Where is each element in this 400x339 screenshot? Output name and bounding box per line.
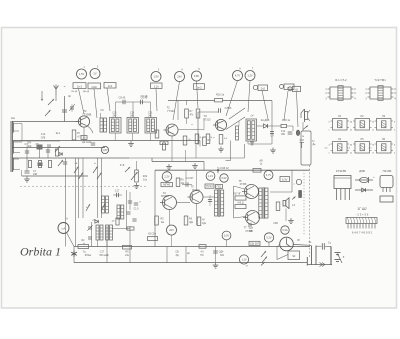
pin label box 10 <box>293 86 301 91</box>
wire <box>12 140 60 142</box>
resistor R33 <box>78 245 89 249</box>
svg-text:Л4: Л4 <box>338 137 342 141</box>
wire switch col 2 <box>75 158 77 247</box>
junction <box>217 169 219 174</box>
wire leader <box>156 89 157 112</box>
capacitor C16 <box>185 182 187 187</box>
svg-text:0,3А: 0,3А <box>282 228 288 232</box>
resistor R30 box <box>235 196 246 200</box>
coil L1a <box>12 123 13 126</box>
svg-text:1,8V: 1,8V <box>102 148 108 152</box>
wire <box>178 129 204 131</box>
wire <box>325 245 331 247</box>
capacitor C19 pol <box>134 202 138 204</box>
wire <box>195 144 197 158</box>
capacitor C27 <box>248 223 250 227</box>
coil L8 primary <box>236 126 239 140</box>
svg-text:2А Д9В: 2А Д9В <box>261 119 270 122</box>
ground pot <box>136 183 138 186</box>
test point circle 4 <box>175 72 185 82</box>
svg-text:НО: НО <box>200 255 204 257</box>
wire <box>177 202 191 204</box>
ground T2 <box>168 164 170 167</box>
wire leader <box>297 92 299 127</box>
svg-text:047: 047 <box>249 230 254 233</box>
svg-text:ЦЭ С242: ЦЭ С242 <box>82 142 92 144</box>
capacitor top mid <box>250 141 254 143</box>
resistor R35 <box>199 245 206 249</box>
transistor T1 <box>78 116 89 127</box>
IF filter section L4 <box>110 118 122 134</box>
diode V3 <box>59 152 62 155</box>
svg-text:2,2V: 2,2V <box>164 175 170 179</box>
capacitor C7 <box>26 158 28 171</box>
svg-text:Л1: Л1 <box>338 114 342 118</box>
capacitor C6 <box>63 161 67 163</box>
resistor R8b <box>196 109 200 118</box>
svg-text:4,7V: 4,7V <box>235 74 241 78</box>
test point circle 1 <box>77 69 87 79</box>
wire drop <box>106 226 108 263</box>
svg-text:6,3V: 6,3V <box>282 178 288 182</box>
wire base link <box>233 186 235 218</box>
resistor R3b <box>48 161 51 168</box>
wire drop <box>129 226 131 263</box>
pinout can B <box>370 87 391 99</box>
svg-text:С8 43: С8 43 <box>119 97 126 100</box>
svg-text:КТ315Б: КТ315Б <box>336 169 346 173</box>
resistor R28 <box>253 169 261 173</box>
coil taps <box>14 123 22 125</box>
switch arrows mid <box>55 146 60 152</box>
capacitor C9 link <box>116 101 151 103</box>
wire leader <box>284 91 288 120</box>
svg-text:1,3V: 1,3V <box>247 74 253 78</box>
resistor R2 <box>38 161 41 168</box>
meter circle mA <box>58 223 69 234</box>
wire switch col 4 <box>82 158 84 218</box>
small circle spk node <box>296 179 301 184</box>
capacitor C3 <box>25 150 29 152</box>
capacitor C4 <box>37 145 43 150</box>
capacitor C8b <box>91 142 95 144</box>
wire bottom rail 1 <box>74 246 310 248</box>
svg-text:С10: С10 <box>112 113 117 115</box>
pin label box 1 <box>73 83 86 89</box>
wire leader <box>262 91 268 120</box>
wire <box>115 102 117 118</box>
svg-text:mA: mA <box>62 227 66 231</box>
switch contact 4 <box>97 173 102 180</box>
test circle 18V <box>101 146 108 153</box>
wire spk feed <box>270 191 292 193</box>
test circle 0.3A <box>281 226 289 234</box>
switch S2 lever <box>277 255 288 260</box>
svg-text:- 2 3 + 5 6: - 2 3 + 5 6 <box>356 213 369 217</box>
package P213 a <box>380 176 393 188</box>
spk arrow <box>292 197 296 200</box>
switch S3 contacts <box>261 251 266 257</box>
wire bus B <box>155 169 310 171</box>
wire <box>316 245 322 247</box>
wire <box>203 196 215 198</box>
coil L7 osc <box>106 225 109 240</box>
test circle -0.9V <box>220 174 228 182</box>
svg-text:Orbita 1: Orbita 1 <box>20 245 61 259</box>
resistor R7 <box>155 130 159 138</box>
wire <box>97 240 99 247</box>
ground T3 <box>194 163 196 166</box>
capacitor C1 <box>64 96 66 122</box>
wire det bottom <box>247 141 249 144</box>
wire bus A <box>152 161 204 163</box>
resistor R8c <box>148 237 158 241</box>
svg-text:ГТ308В: ГТ308В <box>83 114 92 117</box>
svg-text:2п2: 2п2 <box>261 87 266 91</box>
svg-text:3г-Б: 3г-Б <box>120 164 125 167</box>
wire <box>12 147 105 149</box>
wire loop T3 <box>198 111 218 113</box>
jack plug dark <box>299 191 302 198</box>
svg-text:П21: П21 <box>217 185 222 189</box>
wire <box>238 121 240 126</box>
wire bottom power <box>307 264 332 266</box>
pin label box 3 <box>104 83 116 89</box>
jack plug <box>296 130 299 135</box>
power end bar <box>306 257 308 266</box>
svg-text:1к: 1к <box>83 243 85 245</box>
wire dashed chassis <box>303 170 305 236</box>
coil L6 osc <box>96 225 99 240</box>
svg-text:П213Б: П213Б <box>383 169 392 173</box>
svg-text:Д9В: Д9В <box>359 169 365 173</box>
svg-text:К-В Д: К-В Д <box>238 203 244 205</box>
wire right drop <box>309 165 311 257</box>
ground bot <box>215 263 217 266</box>
svg-text:4,7V: 4,7V <box>266 173 272 177</box>
test circle 1.1V <box>206 172 215 181</box>
svg-text:2kV: 2kV <box>177 75 182 79</box>
ground C7 <box>26 177 28 180</box>
speaker BA1 <box>283 201 286 206</box>
svg-text:S2: S2 <box>292 254 296 258</box>
trimmer C21 <box>88 226 92 228</box>
wire diag T3a <box>226 117 245 129</box>
wire bus IF <box>12 140 200 142</box>
switch S1.2 <box>45 110 51 116</box>
svg-text:КТ315: КТ315 <box>204 119 212 122</box>
svg-text:24V: 24V <box>169 228 174 232</box>
wire AGC <box>168 100 215 102</box>
resistor R10 <box>195 134 199 144</box>
svg-text:Л6: Л6 <box>382 137 386 141</box>
capacitor C20b <box>208 199 212 201</box>
svg-text:2п-2: 2п-2 <box>77 85 83 89</box>
svg-text:0,2V: 0,2V <box>266 236 272 240</box>
pin label box T4 <box>161 183 173 187</box>
test circle 4.7V <box>264 171 273 180</box>
wire AF left edge <box>154 170 156 246</box>
transistor T5 <box>190 191 203 204</box>
resistor box top mid <box>160 141 168 144</box>
resistor R9 <box>203 137 207 146</box>
svg-text:*з СЗЗ 12: *з СЗЗ 12 <box>217 166 229 170</box>
wire af feed <box>129 157 245 159</box>
svg-text:С1.9: С1.9 <box>134 209 140 211</box>
capacitor C13 <box>218 108 220 113</box>
wire bottom rail 2 <box>74 262 307 264</box>
coil L5 osc <box>102 196 105 213</box>
svg-text:СЛ8: СЛ8 <box>41 137 46 140</box>
antenna WA2 <box>55 89 57 95</box>
resistor R29 <box>276 202 280 211</box>
coil L8 osc <box>117 205 120 219</box>
terminal star X3 <box>71 251 77 258</box>
svg-text:2,2п: 2,2п <box>154 85 160 89</box>
wire <box>83 128 85 141</box>
svg-text:1,5V: 1,5V <box>79 72 85 76</box>
connector X1 <box>311 246 313 266</box>
jack arrow <box>303 126 308 130</box>
test point circle 3 <box>151 72 161 82</box>
svg-text:2п2: 2п2 <box>108 84 113 88</box>
switch contact vol <box>125 167 130 172</box>
diode V1 <box>263 124 267 128</box>
wire <box>55 95 57 101</box>
svg-text:Л5: Л5 <box>360 137 364 141</box>
pin label box 9 <box>284 84 294 90</box>
svg-text:0,9V: 0,9V <box>221 176 227 180</box>
pinout can A <box>330 87 351 99</box>
capacitor C17 <box>116 193 118 198</box>
svg-text:МП40: МП40 <box>163 183 170 187</box>
resistor R16 <box>215 99 223 102</box>
wire drop <box>185 247 187 263</box>
test point circle 6 <box>233 71 243 81</box>
test circle 2.2V <box>162 172 172 182</box>
svg-text:2V: 2V <box>93 72 96 76</box>
svg-text:C4 047: C4 047 <box>186 177 194 180</box>
wire top rail <box>12 121 78 123</box>
resistor R3 <box>55 149 58 156</box>
svg-text:КЗ С2м: КЗ С2м <box>148 234 156 236</box>
pin label box P214a <box>205 184 214 188</box>
svg-text:СЗ*15: СЗ*15 <box>225 107 232 110</box>
transistor T6 <box>245 185 259 199</box>
svg-text:ТчЭ ТМ1: ТчЭ ТМ1 <box>374 78 386 82</box>
resistor R1 <box>28 161 31 168</box>
svg-text:КТ368: КТ368 <box>240 184 247 186</box>
svg-text:2к: 2к <box>188 139 190 141</box>
svg-text:362: 362 <box>220 254 225 257</box>
wire T1 emitter <box>88 126 94 133</box>
svg-text:ГТ322: ГТ322 <box>167 109 175 113</box>
svg-text:W: W <box>297 238 300 242</box>
pin label box P214b <box>216 185 223 189</box>
capacitor C14 <box>270 131 274 133</box>
coil L1c <box>12 158 13 161</box>
svg-text:T3: T3 <box>203 114 207 118</box>
wire bus drops af <box>166 170 168 172</box>
coil L3 collector <box>100 118 103 132</box>
svg-text:ДВ 4Д: ДВ 4Д <box>83 91 90 93</box>
resistor R9b <box>183 136 187 145</box>
svg-text:1Г Ш2: 1Г Ш2 <box>357 207 366 211</box>
capacitor C23 <box>321 243 323 250</box>
pin label box 8 <box>258 85 268 91</box>
switch box S2 <box>288 251 300 260</box>
IF filter section L6 <box>145 118 157 134</box>
svg-text:С6 4Д: С6 4Д <box>141 95 148 98</box>
resistor R25 <box>184 216 188 225</box>
ground 3 <box>272 148 274 151</box>
resistor R34 <box>123 245 132 249</box>
wire leader <box>248 81 250 112</box>
wire switch col 6 <box>101 158 103 218</box>
resistor R31 box <box>235 205 246 209</box>
pin label box 6V <box>280 177 290 182</box>
svg-text:С10: С10 <box>130 113 135 115</box>
transistor T7 <box>246 211 260 225</box>
package D9V a <box>355 179 373 181</box>
resistor R23 <box>176 178 180 187</box>
capacitor C5 <box>46 149 50 151</box>
wire x1 feed <box>294 244 312 247</box>
capacitor C18 <box>128 200 132 202</box>
wire <box>226 240 228 247</box>
wire <box>171 136 173 161</box>
svg-text:R_з: R_з <box>200 137 204 139</box>
svg-text:048: 048 <box>33 173 38 176</box>
transistor T3 <box>215 119 226 130</box>
svg-text:СШ 50Г: СШ 50Г <box>250 242 260 246</box>
ground 4 <box>290 218 292 221</box>
capacitor C20 <box>213 250 218 252</box>
resistor R26 <box>197 217 201 226</box>
svg-text:0,8V: 0,8V <box>194 74 200 78</box>
package KT315 <box>334 176 351 189</box>
pin label box 2 <box>88 83 101 89</box>
battery GB1 <box>330 246 332 265</box>
resistor R18 <box>281 124 287 127</box>
wire <box>285 209 287 222</box>
wire <box>169 210 171 226</box>
test point circle 2 <box>90 69 100 79</box>
test circle 24V <box>167 225 177 235</box>
resistor R13b <box>116 218 119 225</box>
svg-text:СВ 4Д: СВ 4Д <box>71 91 78 93</box>
svg-text:=: = <box>64 85 66 89</box>
switch contact 3 <box>93 167 98 174</box>
svg-text:1,9V: 1,9V <box>153 75 159 79</box>
wire drop2 <box>90 222 92 247</box>
terminal mark <box>41 91 43 98</box>
package D9V b <box>355 189 373 191</box>
resistor R6 <box>185 109 189 118</box>
pin label box 4 <box>151 83 163 89</box>
resistor R11 <box>206 134 210 144</box>
svg-text:0,2V: 0,2V <box>224 234 230 238</box>
wire <box>199 141 201 147</box>
battery switch circle <box>280 237 294 251</box>
wire switch col 3 <box>78 158 80 218</box>
trimmer C22 <box>88 236 92 238</box>
switch contact 2 <box>79 173 84 180</box>
svg-text:Л3: Л3 <box>382 114 386 118</box>
wire leader <box>94 89 97 118</box>
test point circle 7 <box>245 71 255 81</box>
wire <box>302 122 304 131</box>
wire dashed switch link <box>20 186 148 188</box>
transformer T-int <box>215 190 218 216</box>
svg-text:9к-1: 9к-1 <box>56 132 61 135</box>
ferrite rod WA1 <box>10 121 12 172</box>
svg-text:Б-1 СТ-2: Б-1 СТ-2 <box>335 78 347 82</box>
ground 1 <box>130 141 132 144</box>
wire diag T3b <box>229 108 245 119</box>
wire AGC drop <box>271 101 273 145</box>
wire leader <box>107 88 110 111</box>
wire busA up <box>185 150 187 162</box>
svg-text:9П2кк: 9П2кк <box>85 254 92 257</box>
wire <box>73 247 75 263</box>
switch contacts row2 <box>86 204 90 211</box>
wire step <box>151 158 153 162</box>
resistor R14b <box>127 227 134 230</box>
wire afc drop <box>230 141 232 161</box>
coil L1b <box>12 141 13 144</box>
svg-text:T2: T2 <box>166 106 170 110</box>
diode arrows bottom <box>320 263 323 265</box>
wire <box>67 233 75 247</box>
svg-text:R18 1к: R18 1к <box>282 119 291 122</box>
switch contact 1 <box>74 167 79 174</box>
IF filter section L5 <box>127 118 139 134</box>
test circle 0.2Vb <box>264 233 273 242</box>
svg-text:3Д: 3Д <box>176 254 179 257</box>
wire switch col 5 <box>97 158 99 218</box>
svg-text:1,1V: 1,1V <box>208 174 214 178</box>
test circle 1.1Vb <box>239 255 248 264</box>
svg-text:П214: П214 <box>206 184 213 188</box>
svg-text:500 мкФ: 500 мкФ <box>99 254 108 257</box>
svg-text:СЛ4: СЛ4 <box>27 143 32 145</box>
switch S1.1 <box>48 99 54 105</box>
potentiometer R22 <box>135 170 139 182</box>
wire leader <box>226 81 238 116</box>
wire <box>12 157 129 159</box>
wire leader <box>197 81 199 108</box>
resistor R4 <box>72 130 76 140</box>
svg-text:СП: СП <box>270 136 274 138</box>
svg-text:2п2п: 2п2п <box>91 85 97 89</box>
ground 2 <box>220 147 222 150</box>
wire <box>186 100 188 105</box>
transistor T4 <box>163 196 177 210</box>
test point circle 5 <box>192 71 202 81</box>
resistor R24 <box>155 216 159 225</box>
capacitor C6b <box>38 163 43 167</box>
svg-text:+: + <box>139 200 141 204</box>
svg-text:С17: С17 <box>115 190 120 193</box>
connector comb <box>346 218 377 224</box>
wire <box>113 194 122 196</box>
wire switch col 1 <box>65 158 67 247</box>
svg-text:Л2: Л2 <box>360 114 364 118</box>
svg-text:Нм: Нм <box>11 116 15 120</box>
battery cells <box>335 252 341 254</box>
label box T1e <box>81 136 87 140</box>
